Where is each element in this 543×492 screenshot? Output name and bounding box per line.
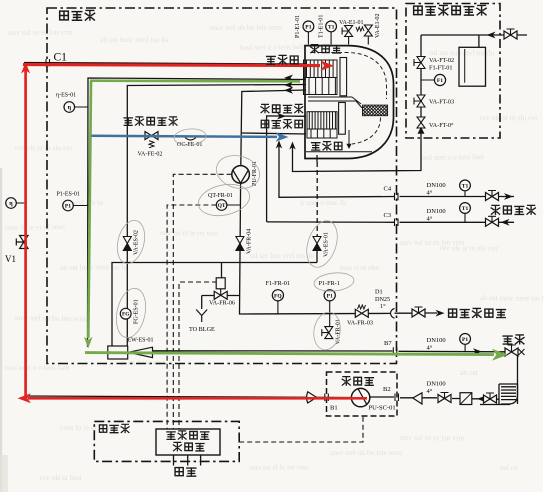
svg-text:F1: F1 — [437, 78, 443, 84]
instrument P1-ES-01 — [63, 200, 74, 211]
valve on sea chest line — [484, 393, 497, 403]
svg-text:D1: D1 — [375, 289, 383, 296]
wire feedwater treated supply top — [421, 35, 527, 47]
svg-text:VA-FE-02: VA-FE-02 — [138, 152, 163, 158]
sketch around FG-ES-01 — [112, 286, 150, 341]
valve VA-FT-03 — [414, 95, 425, 107]
label hanzi chuhai — [502, 334, 524, 344]
svg-text:VA-FT-03: VA-FT-03 — [429, 99, 454, 106]
instrument stems C4 C3 B7 — [464, 191, 466, 351]
wire feedwater unit vertical — [420, 35, 422, 134]
sketch around QT — [195, 180, 252, 220]
sketchy pencil ellipses — [112, 128, 355, 352]
instrument T1 C4 — [460, 180, 471, 191]
sight glass square — [460, 393, 472, 405]
wire pump PU-FR-01 down line — [240, 183, 391, 314]
label hanzi liuliangtiaojiefa — [123, 116, 177, 125]
instrument QT-FR-01 — [216, 200, 227, 211]
svg-text:P1-ES-01: P1-ES-01 — [57, 192, 80, 198]
svg-text:VA-FT-0°: VA-FT-0° — [429, 122, 454, 129]
power supply ticks — [174, 455, 201, 466]
boundary 造水机 dash-dot box — [47, 8, 397, 364]
evaporator tube bundle — [307, 112, 337, 138]
wire brine header to ejector — [112, 263, 317, 347]
svg-text:ab ost lneir rienl tso ba: ab ost lneir rienl tso ba — [60, 262, 129, 272]
svg-text:besl nret o o tern lseb: besl nret o o tern lseb — [240, 42, 305, 52]
svg-text:cens ltr ie ei rtl snec: cens ltr ie ei rtl snec — [5, 222, 66, 232]
svg-text:T1: T1 — [462, 183, 469, 189]
svg-text:P1-E1-01: P1-E1-01 — [295, 15, 301, 38]
boundary seawater pump dashed box — [327, 372, 398, 416]
svg-text:DN100: DN100 — [427, 182, 446, 189]
pump PU-FR-01 distillate — [232, 166, 250, 184]
instrument FG-ES-01 — [120, 308, 131, 319]
svg-text:uner stel ob bo lets renu: uner stel ob bo lets renu — [330, 448, 402, 457]
valve VA-FR-04 — [236, 237, 244, 251]
svg-text:DN100: DN100 — [427, 381, 446, 388]
svg-text:uner stel ob bo lets renu: uner stel ob bo lets renu — [210, 23, 282, 32]
pump PU-SC-01 seawater — [351, 388, 369, 406]
svg-text:DN25: DN25 — [375, 296, 390, 303]
svg-text:T1-E1-01: T1-E1-01 — [319, 15, 325, 38]
svg-text:FG-ES-01: FG-ES-01 — [134, 299, 140, 324]
label hanzi zhengfaqi — [311, 141, 343, 150]
wire jacket water in — [267, 116, 306, 222]
label hanzi gangtaoshuijin — [260, 104, 303, 113]
ejector EW-ES-01 — [108, 346, 128, 359]
valve VA-E1-01 on vessel top — [342, 26, 353, 37]
svg-text:besl nret o o tern lseb: besl nret o o tern lseb — [420, 152, 485, 162]
valve VA-FR-01 sampling — [322, 327, 333, 339]
svg-text:4°: 4° — [427, 345, 433, 352]
valve VA-FE-02 on jacket line — [145, 132, 158, 148]
sketch around P1-FR-1 — [313, 271, 355, 293]
svg-text:mrv nsl ce ec lsn vrm: mrv nsl ce ec lsn vrm — [400, 433, 465, 442]
svg-text:VA-ES-02: VA-ES-02 — [134, 230, 140, 255]
wire C4 hot water return — [279, 142, 514, 198]
instrument P1-E1-01 — [303, 21, 314, 32]
wire fresh water to tank line right — [395, 312, 438, 314]
label hanzi yandujì — [173, 442, 205, 451]
svg-text:1°: 1° — [380, 303, 386, 310]
svg-text:EW-ES-01: EW-ES-01 — [128, 338, 154, 344]
instrument T1-E1-01 — [326, 21, 337, 32]
svg-text:nsl ce: nsl ce — [500, 463, 518, 472]
instrument P1 B7 — [460, 334, 471, 345]
svg-text:VA-FR-03: VA-FR-03 — [347, 320, 373, 327]
relief valve VA-E1-02 with spring — [364, 25, 372, 36]
highlight blue jacket run — [92, 136, 278, 137]
svg-text:rve ols nt besl: rve ols nt besl — [40, 473, 82, 482]
bilge Y funnel — [196, 310, 207, 323]
valve C4 line — [486, 191, 499, 201]
instrument eta-ES-01 — [64, 102, 75, 113]
valve VA-FR-06 with actuator — [214, 278, 227, 300]
svg-text:nd snt lere erel tns dn: nd snt lere erel tns dn — [250, 251, 315, 260]
instrument P1-FR-1 — [324, 290, 335, 301]
svg-text:P1-FR-1: P1-FR-1 — [319, 280, 340, 287]
reducer DN25 symbol — [391, 309, 395, 319]
svg-text:η: η — [68, 105, 72, 111]
svg-text:VA-E1-02: VA-E1-02 — [375, 13, 381, 38]
evaporator tube sheet — [339, 103, 346, 135]
vessel condenser/evaporator shell — [305, 46, 394, 159]
valve VA-ES-01 — [313, 237, 321, 251]
valve VA-ES-02 — [123, 237, 131, 251]
orifice OC-FE-01 — [185, 138, 196, 141]
svg-text:V1: V1 — [5, 254, 16, 264]
highlight green brine riser — [88, 81, 91, 338]
svg-text:FQ: FQ — [274, 293, 282, 299]
vessel inner dashed contour — [312, 53, 387, 100]
svg-text:DN100: DN100 — [427, 208, 446, 215]
svg-text:C1: C1 — [54, 52, 68, 64]
svg-text:VA-ES-01: VA-ES-01 — [324, 232, 330, 257]
svg-text:mrv nsl ce ec lsn vrm: mrv nsl ce ec lsn vrm — [8, 27, 73, 37]
label hanzi lengningqi — [310, 44, 341, 53]
vessel internal drip line w arrow — [348, 130, 350, 144]
sketch around VA-ES-02 — [113, 218, 149, 267]
svg-text:DN100: DN100 — [427, 337, 446, 344]
highlight red bottom run — [28, 397, 367, 400]
instrument stems freshwater line — [278, 301, 330, 327]
svg-text:η: η — [9, 201, 13, 207]
svg-text:B1: B1 — [330, 405, 338, 412]
sketch around VA-ES-01 — [301, 217, 342, 271]
svg-text:TO BLGE: TO BLGE — [189, 326, 215, 333]
highlight green overboard run — [85, 353, 494, 355]
instrument connectors left — [16, 80, 434, 206]
cross mark after overboard valve — [519, 349, 525, 355]
svg-text:PU-SC-01: PU-SC-01 — [369, 405, 396, 412]
pipe class tick C1 — [46, 59, 50, 67]
sketch around VA-FR-01 — [311, 310, 343, 352]
sketch around pump PU-FR-01 — [213, 151, 264, 193]
valve overboard discharge — [505, 345, 518, 356]
dashed control signal lines — [167, 205, 216, 429]
valve feedwater filling — [504, 29, 517, 39]
svg-text:B7: B7 — [384, 340, 392, 347]
valve pump discharge — [438, 393, 451, 403]
condenser tube sheet — [340, 58, 347, 96]
svg-text:4°: 4° — [427, 388, 433, 395]
svg-text:P1: P1 — [305, 24, 311, 30]
sea chest grate — [480, 384, 518, 405]
svg-text:P1: P1 — [462, 337, 468, 343]
svg-text:P1: P1 — [65, 204, 71, 210]
svg-text:ab ost: ab ost — [460, 368, 479, 377]
valve V1 on suction riser — [16, 236, 28, 249]
highlight green top stub — [90, 79, 300, 82]
instrument T1 C3 — [460, 203, 471, 214]
svg-text:QT-FR-01: QT-FR-01 — [208, 193, 233, 199]
label hanzi kongzhiban — [99, 424, 130, 433]
svg-text:F1-FR-01: F1-FR-01 — [266, 280, 290, 287]
svg-text:QT: QT — [218, 203, 226, 209]
label hanzi gongdian — [174, 468, 196, 477]
label hanzi haishuijin — [266, 55, 299, 65]
svg-text:onv tsr el le rst vno: onv tsr el le rst vno — [160, 228, 218, 238]
svg-text:nd snt: nd snt — [300, 88, 319, 97]
wire VA-FR-06 bypass branch — [202, 263, 240, 296]
wire condenser outlet to ejector line — [127, 85, 306, 347]
svg-text:4°: 4° — [427, 190, 433, 197]
svg-text:VA-E1-01: VA-E1-01 — [339, 20, 364, 26]
label hanzi gaowendanshui — [491, 205, 536, 215]
svg-text:4°: 4° — [427, 216, 433, 223]
valve freshwater to tank — [412, 307, 425, 317]
vessel inner bottom line — [306, 151, 372, 153]
label hanzi geishuichuli — [413, 5, 487, 16]
wire seawater inlet pipe C1 — [24, 63, 306, 65]
wire pump suction from sea line — [25, 396, 352, 398]
label hanzi danshuizhishuicang — [448, 308, 506, 318]
wire brine dump VA-ES-01 — [316, 155, 318, 162]
svg-text:T1: T1 — [328, 24, 335, 30]
svg-text:ir snel o tnse lb: ir snel o tnse lb — [300, 198, 346, 207]
svg-text:ab ost lneir rienl tso ba: ab ost lneir rienl tso ba — [100, 35, 169, 44]
condenser tube bundle — [304, 60, 338, 95]
wire pump discharge to sea chest — [369, 397, 500, 399]
instrument stems vessel top — [308, 32, 368, 45]
svg-text:VA-FR-06: VA-FR-06 — [209, 300, 235, 307]
svg-text:B2: B2 — [383, 386, 391, 393]
label hanzi gangtaoshuichu — [261, 119, 303, 128]
svg-text:C4: C4 — [384, 186, 392, 193]
demister pad crosshatched — [363, 105, 388, 116]
wire overboard discharge line — [153, 351, 505, 352]
wire drain to bilge — [201, 296, 203, 310]
wire distillate to pump line — [241, 90, 306, 166]
svg-text:ab ost lneir rienl tso ba: ab ost lneir rienl tso ba — [480, 293, 543, 303]
valve VA-FT-04 — [417, 117, 425, 256]
wire brine suction line (under green) — [88, 78, 307, 347]
expander cone discharge — [413, 393, 422, 404]
svg-text:rve ols nt tn slo evr: rve ols nt tn slo evr — [480, 113, 538, 122]
svg-text:rve ols nt tn slo evr: rve ols nt tn slo evr — [440, 243, 498, 253]
boundary feedwater unit dash-dot box — [406, 4, 500, 139]
label hanzi zaoshuiji — [59, 10, 95, 21]
svg-text:onv tsr el le rst vno: onv tsr el le rst vno — [250, 462, 308, 472]
svg-text:lsne rt ol ebn: lsne rt ol ebn — [340, 263, 379, 272]
svg-text:η-ES-01: η-ES-01 — [56, 93, 76, 99]
wire jacket water out stub — [242, 133, 306, 134]
svg-text:VA-FT-02: VA-FT-02 — [429, 57, 454, 64]
svg-text:besl nret o o tern lseb: besl nret o o tern lseb — [5, 363, 70, 372]
reducer cone suction — [307, 392, 317, 403]
highlight red seawater top run — [23, 65, 320, 66]
wire overboard drop to sea chest — [501, 353, 518, 404]
highlight red left riser — [24, 66, 27, 397]
svg-text:C3: C3 — [384, 212, 392, 219]
svg-text:F1-FT-01: F1-FT-01 — [429, 65, 453, 72]
svg-text:FG: FG — [122, 312, 130, 318]
label hanzi haishuibeng — [342, 376, 374, 386]
svg-text:VA-FR-01: VA-FR-01 — [336, 319, 342, 344]
starter and salinometer box — [156, 429, 220, 455]
valve VA-FT-02 — [414, 57, 425, 69]
feedwater tank — [459, 47, 486, 86]
svg-text:T1: T1 — [462, 206, 469, 212]
boundary control panel dash-dot box — [94, 421, 239, 461]
instrument eta left — [6, 198, 17, 209]
label hanzi qidongqiyu — [166, 430, 209, 439]
instrument F1 feedwater — [434, 74, 445, 85]
instrument F1-FR-01 — [272, 290, 283, 301]
valve VA-FR-03 self-regulating with spring — [355, 309, 368, 317]
svg-text:P1: P1 — [327, 293, 333, 299]
svg-text:rve ols nt tn slo evr: rve ols nt tn slo evr — [15, 143, 73, 152]
svg-text:VA-FR-04: VA-FR-04 — [247, 229, 253, 254]
vapor duct lines — [308, 97, 362, 108]
wire C3 hot water line — [267, 221, 514, 223]
sketch around OC-FE-01 — [173, 128, 206, 147]
valve C3 line — [486, 216, 499, 226]
wire feedwater to evaporator — [293, 134, 422, 172]
